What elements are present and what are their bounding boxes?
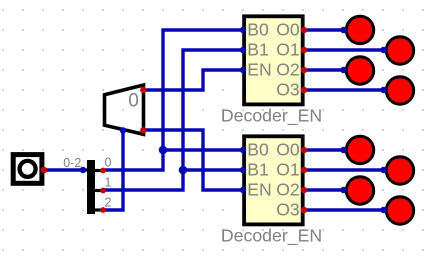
svg-text:EN: EN <box>247 60 271 80</box>
svg-text:O2: O2 <box>276 180 299 200</box>
svg-text:0-2: 0-2 <box>63 156 81 170</box>
svg-text:1: 1 <box>105 176 112 190</box>
svg-text:EN: EN <box>247 180 271 200</box>
svg-text:B0: B0 <box>247 20 269 40</box>
svg-text:Decoder_EN: Decoder_EN <box>221 106 322 127</box>
svg-text:O1: O1 <box>276 40 299 60</box>
svg-text:0: 0 <box>128 91 139 112</box>
svg-text:B0: B0 <box>247 140 269 160</box>
svg-text:B1: B1 <box>247 160 269 180</box>
svg-text:O3: O3 <box>276 80 300 100</box>
svg-text:O0: O0 <box>276 140 300 160</box>
svg-text:2: 2 <box>105 196 112 210</box>
svg-text:O3: O3 <box>276 200 300 220</box>
svg-text:O1: O1 <box>276 160 299 180</box>
svg-text:B1: B1 <box>247 40 269 60</box>
svg-text:Decoder_EN: Decoder_EN <box>221 226 322 247</box>
svg-text:O0: O0 <box>276 20 300 40</box>
svg-text:O2: O2 <box>276 60 299 80</box>
svg-text:0: 0 <box>105 156 112 170</box>
